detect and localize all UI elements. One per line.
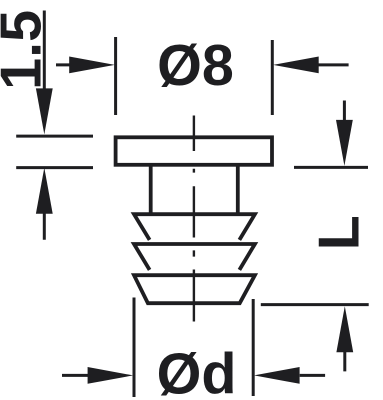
svg-text:1.5: 1.5 <box>0 10 54 90</box>
svg-text:Ø8: Ø8 <box>157 34 234 98</box>
svg-text:Ød: Ød <box>157 343 237 400</box>
svg-text:L: L <box>308 215 372 250</box>
